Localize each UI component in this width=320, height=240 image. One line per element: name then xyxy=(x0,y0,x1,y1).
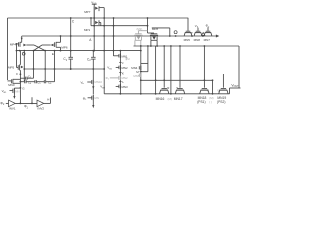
node U xyxy=(218,88,220,92)
svg-text:MN5: MN5 xyxy=(133,74,139,78)
node R xyxy=(167,86,169,90)
svg-text:Vb: Vb xyxy=(81,80,85,85)
node C xyxy=(72,20,75,24)
wire bus y69 xyxy=(24,68,104,70)
wire VDD lead xyxy=(93,4,95,6)
node M xyxy=(136,70,142,74)
transistor MN13 bias xyxy=(2,88,21,94)
svg-text:(M): (M) xyxy=(168,97,172,101)
power VDD xyxy=(91,0,97,5)
transistor MN11 xyxy=(83,95,99,101)
node P xyxy=(191,31,204,37)
wire MP5 drain up xyxy=(19,51,21,65)
transistor MN10 xyxy=(81,79,103,85)
transistor MN6 xyxy=(156,89,169,102)
svg-text:VOUT: VOUT xyxy=(231,83,239,88)
svg-text:M: M xyxy=(127,57,130,61)
wire C2 column xyxy=(92,59,94,79)
node K xyxy=(119,71,124,75)
svg-text:C2: C2 xyxy=(87,57,91,62)
label Vb gate xyxy=(195,24,199,29)
wire bus y80.3 xyxy=(140,79,214,81)
svg-text:MN2: MN2 xyxy=(122,66,128,70)
wire MP1 gate tie xyxy=(90,18,92,26)
svg-text:G: G xyxy=(22,86,25,90)
wire column x223.4 PS2 gate xyxy=(222,74,224,88)
wire C3 right column xyxy=(33,68,35,78)
wire MN1 gate column xyxy=(113,18,115,56)
transistor MN1 dummy xyxy=(126,57,130,61)
wire node C column xyxy=(70,18,72,70)
svg-text:T: T xyxy=(207,88,209,92)
svg-text:VB1: VB1 xyxy=(2,89,7,94)
svg-text:MN16: MN16 xyxy=(156,97,165,101)
transistor MN7t xyxy=(204,27,212,42)
svg-text:C: C xyxy=(72,20,75,24)
svg-text:MN8: MN8 xyxy=(194,38,201,42)
svg-text:MP5: MP5 xyxy=(8,66,15,70)
wire tap x32 xyxy=(31,97,33,103)
label Vout xyxy=(231,83,239,88)
svg-text:MN10: MN10 xyxy=(95,80,103,84)
wire MP6 cross stub xyxy=(42,44,51,46)
transistor MN2b dummy xyxy=(106,76,128,81)
transistor MN4 xyxy=(131,66,141,71)
transistor MN3 xyxy=(116,84,128,89)
svg-text:Φ1: Φ1 xyxy=(106,76,110,81)
svg-text:MP8: MP8 xyxy=(152,27,159,31)
wire column A xyxy=(93,26,95,52)
transistor MP7 xyxy=(84,6,104,18)
svg-text:F: F xyxy=(16,72,18,76)
transistor MN9 PS2 xyxy=(217,89,228,105)
capacitor C4 xyxy=(20,80,34,85)
transistor MN0 xyxy=(8,79,20,87)
wire column x155.6 xyxy=(155,46,157,95)
node S xyxy=(176,86,178,90)
svg-text:C1: C1 xyxy=(63,57,67,62)
label phi2 input xyxy=(0,101,8,106)
wire cross coupling X xyxy=(33,45,47,51)
wire INV2 out xyxy=(44,98,51,104)
wire column x24.3 xyxy=(23,51,25,81)
node F xyxy=(16,72,21,76)
arrow on MP4 drain xyxy=(21,38,23,41)
wire column x204.4 PS1 gate xyxy=(203,46,205,88)
transistor MP1 xyxy=(84,18,101,32)
transistor MN8t xyxy=(194,28,202,42)
svg-text:Φ2: Φ2 xyxy=(206,24,210,29)
wire MN4 gate loop xyxy=(141,46,148,72)
capacitor C6 xyxy=(44,80,54,85)
wire column x212.5 xyxy=(212,80,214,94)
svg-text:A: A xyxy=(89,38,92,42)
capacitor C3 xyxy=(20,74,33,79)
node A xyxy=(89,38,92,42)
svg-text:U: U xyxy=(218,88,220,92)
output arrow xyxy=(216,35,219,38)
wire left border xyxy=(7,18,9,80)
node G xyxy=(20,86,26,90)
wire column x239 output branch xyxy=(238,46,240,88)
svg-text:INV2: INV2 xyxy=(37,107,44,111)
label dots gray right xyxy=(209,96,213,104)
svg-text:Φ1: Φ1 xyxy=(24,105,29,110)
svg-text:C4: C4 xyxy=(28,80,32,85)
wire column x164.2 MN6 gate xyxy=(163,46,165,88)
transistor MP6 xyxy=(51,42,68,49)
node E xyxy=(52,52,54,56)
transistor MP9 dummy xyxy=(134,27,147,46)
svg-text:MN17: MN17 xyxy=(174,97,183,101)
svg-text:MN: MN xyxy=(15,90,19,94)
wire mid bus y36 xyxy=(22,35,217,37)
node junctions on top bus xyxy=(70,17,149,19)
node H xyxy=(47,97,49,101)
svg-text:MP7: MP7 xyxy=(84,10,91,14)
wire top bus y18 xyxy=(8,17,189,19)
svg-text:MN3: MN3 xyxy=(122,85,128,89)
wire MP7 gate loop xyxy=(103,8,105,18)
svg-text:(PS1): (PS1) xyxy=(197,100,205,104)
label phi1 node xyxy=(24,105,29,110)
svg-text:MN0: MN0 xyxy=(8,83,15,87)
transistor MN1 xyxy=(114,54,128,59)
svg-text:C5: C5 xyxy=(37,80,41,85)
svg-text:MP4: MP4 xyxy=(10,43,17,47)
svg-text:Φ1: Φ1 xyxy=(83,96,87,101)
wire chain column x141 xyxy=(140,45,142,94)
capacitor C2 xyxy=(87,51,96,63)
svg-text:MN5: MN5 xyxy=(184,38,191,42)
inverter INV1 xyxy=(9,100,16,111)
svg-text:C6: C6 xyxy=(48,80,52,85)
node D xyxy=(174,31,177,37)
node T xyxy=(207,88,209,92)
wire column x180 MN7 gate xyxy=(179,46,181,88)
wire MP8 gate loop xyxy=(152,28,171,37)
wire MP6 leads xyxy=(60,35,62,51)
transistor MP4 xyxy=(10,42,26,47)
node J xyxy=(119,61,124,65)
wire cap bus y50.6 xyxy=(16,50,142,52)
transistor MP5 xyxy=(8,65,24,71)
node theta circled xyxy=(22,52,25,55)
transistor MN4b dummy xyxy=(133,73,140,78)
svg-text:Φ2: Φ2 xyxy=(0,101,5,106)
wire inverter link xyxy=(15,103,37,105)
wire column x33.5 xyxy=(33,51,35,69)
svg-text:MP6: MP6 xyxy=(61,45,68,49)
svg-text:INV1: INV1 xyxy=(9,107,16,111)
transistor MN8 PS1 xyxy=(197,89,209,105)
svg-text:VB2: VB2 xyxy=(100,85,105,90)
wire column x45.2 xyxy=(44,51,46,81)
wire MP4 gate column xyxy=(17,44,19,68)
svg-text:K: K xyxy=(122,71,124,75)
capacitor C1 xyxy=(63,57,73,62)
svg-text:MP1: MP1 xyxy=(84,28,91,32)
wire bus y46 xyxy=(134,45,240,47)
svg-text:(PS2): (PS2) xyxy=(217,100,225,104)
svg-text:H: H xyxy=(47,97,49,101)
wire MP4 drain up xyxy=(21,36,23,42)
svg-text:E: E xyxy=(52,52,54,56)
transistor MN2 xyxy=(116,65,128,70)
wire MP4 cross stub xyxy=(26,44,34,46)
svg-text:( ): ( ) xyxy=(209,100,212,104)
wire border to MN0 gate xyxy=(8,80,12,82)
transistor MP8 xyxy=(148,18,159,46)
inverter INV2 xyxy=(37,100,44,111)
wire bottom bus y93.8 xyxy=(104,93,229,95)
svg-text:VB1: VB1 xyxy=(107,66,112,71)
label phi2 gate xyxy=(206,24,210,29)
svg-text:MN: MN xyxy=(95,96,99,100)
node delta mark xyxy=(202,32,205,35)
svg-text:R: R xyxy=(167,86,169,90)
label VB2 gate xyxy=(100,85,105,90)
transistor MN7 xyxy=(174,89,185,102)
svg-text:S: S xyxy=(176,86,178,90)
wire F G column xyxy=(20,70,22,103)
capacitor C5 xyxy=(35,80,44,85)
transistor MN5 xyxy=(184,18,192,42)
svg-text:J: J xyxy=(122,61,124,65)
label VB1 gate xyxy=(107,66,112,71)
wire between sinks with arrow xyxy=(92,85,94,95)
wire column from MP7 gate down xyxy=(103,18,105,94)
wire output step xyxy=(230,88,241,94)
node L xyxy=(119,80,124,84)
wire column x170.9 xyxy=(170,46,172,95)
label dots gray middle xyxy=(168,97,172,101)
svg-text:L: L xyxy=(122,80,124,84)
arrow bias current xyxy=(13,94,15,100)
wire gate bus y25.7 xyxy=(91,25,148,27)
svg-text:(M2): (M2) xyxy=(137,27,143,31)
svg-text:MN7: MN7 xyxy=(204,38,211,42)
wire chain column x120.4 xyxy=(119,51,121,94)
wire column E x54.5 xyxy=(54,51,56,82)
arrow output current xyxy=(92,101,94,109)
